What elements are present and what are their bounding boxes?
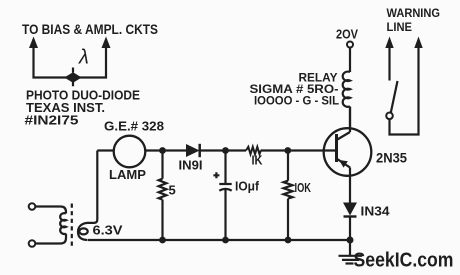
svg-text:SeekIC.com: SeekIC.com bbox=[354, 249, 454, 272]
svg-text:2N35: 2N35 bbox=[376, 151, 407, 166]
svg-text:λ: λ bbox=[78, 47, 89, 69]
svg-text:IOK: IOK bbox=[295, 180, 312, 195]
svg-text:WARNING: WARNING bbox=[387, 8, 441, 20]
svg-text:G.E.# 328: G.E.# 328 bbox=[104, 119, 164, 134]
svg-text:IN34: IN34 bbox=[361, 204, 391, 219]
svg-text:TO BIAS & AMPL. CKTS: TO BIAS & AMPL. CKTS bbox=[22, 22, 158, 37]
svg-text:5: 5 bbox=[169, 183, 176, 198]
svg-text:2OV: 2OV bbox=[336, 28, 359, 42]
svg-text:IN9I: IN9I bbox=[179, 158, 203, 173]
svg-text:IOOOO - G - SIL: IOOOO - G - SIL bbox=[254, 94, 339, 108]
svg-text:IK: IK bbox=[252, 154, 263, 168]
svg-text:LAMP: LAMP bbox=[109, 167, 146, 182]
svg-text:6.3V: 6.3V bbox=[93, 223, 123, 238]
svg-text:#IN2I75: #IN2I75 bbox=[25, 113, 79, 128]
svg-text:LINE: LINE bbox=[387, 22, 413, 34]
svg-text:IOμf: IOμf bbox=[235, 179, 260, 194]
